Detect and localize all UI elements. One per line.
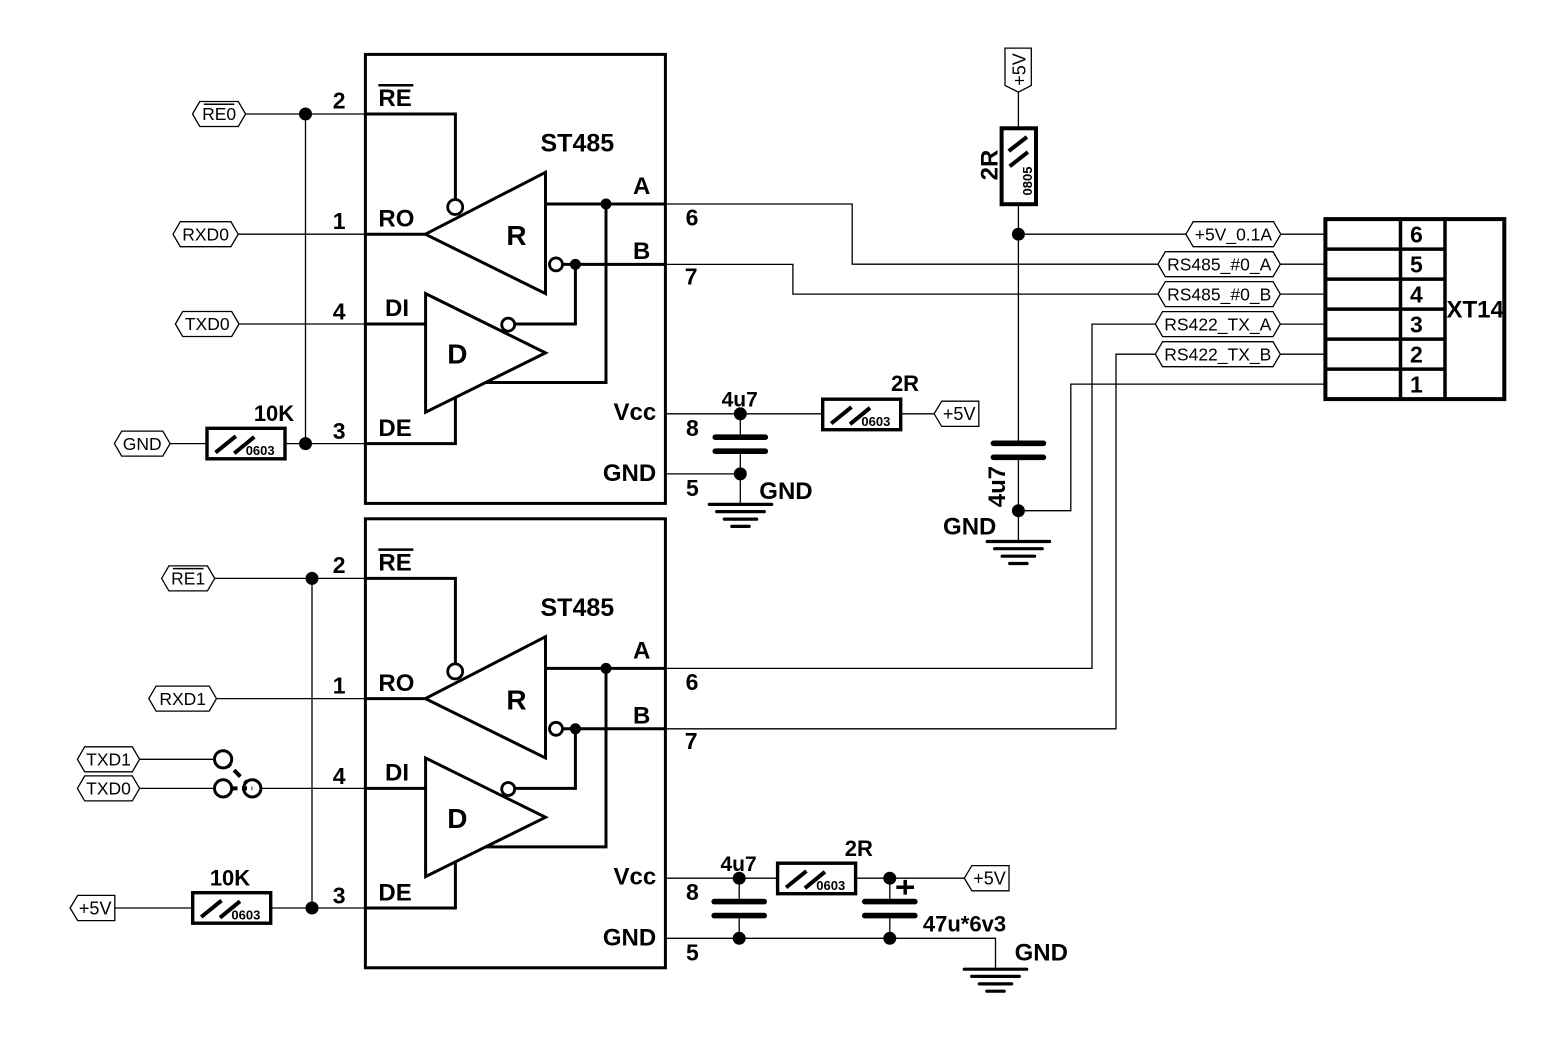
wire RS422_TX_A to XT14 pin 3 bbox=[1280, 323, 1325, 325]
U1 wire DE to driver enable bbox=[365, 397, 455, 443]
jumper dashed link TXD1-DI bbox=[228, 764, 247, 783]
svg-text:10K: 10K bbox=[210, 866, 250, 891]
junction 47u/GND (bottom) bbox=[883, 932, 896, 945]
U2 pin label RO bbox=[378, 670, 414, 697]
op-amp U2 ST485 transceiver body bbox=[365, 519, 665, 968]
svg-text:RE: RE bbox=[378, 85, 411, 112]
wire jumper to U2 pin 4 bbox=[261, 787, 366, 789]
power flag +5V (bottom pullup) bbox=[70, 895, 115, 920]
U2 pin label A bbox=[633, 637, 650, 664]
svg-text:DE: DE bbox=[378, 879, 411, 906]
ground (mid) bbox=[943, 514, 1050, 564]
power flag +5V (bottom Vcc) bbox=[964, 866, 1009, 891]
U1 pin 8 bbox=[686, 415, 699, 441]
capacitor 4u7 (bottom) bbox=[714, 853, 764, 938]
U2 receiver input B bubble bbox=[550, 722, 563, 735]
U2 wire receiver input B bbox=[563, 727, 666, 730]
svg-text:4: 4 bbox=[1410, 281, 1423, 307]
svg-text:+5V: +5V bbox=[973, 869, 1006, 889]
U1 node B junction bbox=[570, 259, 581, 270]
U2 pin 3 bbox=[333, 883, 346, 909]
svg-text:5: 5 bbox=[686, 475, 699, 501]
svg-text:RS485_#0_A: RS485_#0_A bbox=[1167, 254, 1271, 275]
wire 2R to +5V (top) bbox=[901, 413, 934, 415]
svg-text:5: 5 bbox=[686, 939, 699, 965]
svg-text:GND: GND bbox=[603, 924, 656, 951]
U1 pin label Vcc bbox=[613, 399, 656, 426]
wire RE1 to U2 pin 2 bbox=[215, 577, 366, 579]
U2 pin 2 bbox=[333, 552, 346, 578]
wire RS485_#0_A to XT14 pin 5 bbox=[1280, 263, 1325, 265]
svg-text:RS422_TX_A: RS422_TX_A bbox=[1164, 314, 1271, 335]
wire TXD0 to U1 pin 4 bbox=[239, 323, 365, 325]
svg-text:D: D bbox=[447, 803, 467, 834]
U1 pin 3 bbox=[333, 418, 346, 444]
U1 pin 2 bbox=[333, 88, 346, 114]
svg-text:RS422_TX_B: RS422_TX_B bbox=[1164, 344, 1271, 365]
U2 wire A to driver output bbox=[486, 668, 606, 847]
svg-text:1: 1 bbox=[1410, 371, 1423, 397]
svg-text:ST485: ST485 bbox=[541, 594, 615, 622]
wire 4u7 to ground (top) bbox=[739, 474, 741, 505]
svg-text:6: 6 bbox=[1410, 221, 1423, 247]
U2 pin 4 bbox=[333, 763, 346, 789]
net flag RS485_#0_B bbox=[1158, 282, 1280, 307]
U2 pin label DE bbox=[378, 879, 411, 906]
svg-text:GND: GND bbox=[759, 478, 812, 505]
capacitor 47u*6v3 (bottom electrolytic) bbox=[865, 878, 1006, 938]
svg-text:RE1: RE1 bbox=[171, 569, 205, 589]
U2 wire RO to receiver output bbox=[365, 697, 425, 700]
wire RS422_TX_B to U2 B pin7 bbox=[665, 354, 1155, 729]
wire junction to +5V flag (bottom) bbox=[890, 877, 965, 879]
wire RS422_TX_A to U2 A pin6 bbox=[665, 324, 1155, 668]
net flag TXD1 bbox=[77, 747, 139, 772]
net flag TXD0 (bottom) bbox=[77, 776, 139, 801]
svg-text:2: 2 bbox=[333, 88, 346, 114]
junction Vcc/4u7 (bottom) bbox=[733, 872, 746, 885]
resistor 10K 0603 (top pulldown) bbox=[207, 401, 294, 459]
U1 wire A to driver output bbox=[486, 204, 606, 383]
svg-text:0603: 0603 bbox=[816, 878, 845, 893]
svg-text:DI: DI bbox=[385, 295, 409, 322]
U2 wire B to driver inverted output bbox=[515, 729, 576, 789]
svg-text:B: B bbox=[633, 702, 650, 729]
svg-text:6: 6 bbox=[686, 205, 699, 231]
svg-text:RE0: RE0 bbox=[202, 104, 236, 124]
U1 driver triangle D bbox=[426, 294, 546, 413]
svg-text:3: 3 bbox=[333, 883, 346, 909]
svg-text:D: D bbox=[447, 339, 467, 370]
svg-text:+5V_0.1A: +5V_0.1A bbox=[1195, 224, 1273, 245]
U1 pin label RE (active low) bbox=[378, 85, 413, 112]
wire XT14 pin1 to ground net bbox=[1018, 384, 1325, 511]
wire RE0 to U1 pin 2 bbox=[246, 113, 366, 115]
U1 wire receiver input A bbox=[546, 203, 666, 206]
svg-text:3: 3 bbox=[333, 418, 346, 444]
U2 pin 7 bbox=[685, 728, 698, 754]
wire +5V to resistor 2R 0805 bbox=[1017, 92, 1019, 128]
svg-text:GND: GND bbox=[123, 434, 162, 454]
wire 2R to +5V junction (bottom) bbox=[856, 877, 890, 879]
U2 pin 6 bbox=[686, 669, 699, 695]
junction DE/10K (bottom) bbox=[306, 902, 319, 915]
svg-text:5: 5 bbox=[1410, 251, 1423, 277]
svg-text:4: 4 bbox=[333, 299, 346, 325]
U1 pin label DE bbox=[378, 415, 411, 442]
svg-text:0603: 0603 bbox=[861, 414, 890, 429]
jumper dashed link TXD0-DI bbox=[233, 786, 253, 790]
net flag RXD0 bbox=[173, 222, 238, 247]
svg-text:RO: RO bbox=[378, 670, 414, 697]
U1 pin label RO bbox=[378, 206, 414, 233]
svg-text:TXD1: TXD1 bbox=[86, 750, 131, 770]
U2 node A junction bbox=[601, 663, 612, 674]
resistor 2R 0805 bbox=[977, 128, 1037, 204]
net flag RE0 bbox=[193, 102, 246, 127]
wire RXD1 to U2 pin 1 bbox=[217, 698, 366, 700]
U2 wire DI to driver input bbox=[365, 787, 425, 790]
U2 wire RE to receiver enable bbox=[365, 578, 455, 663]
U2 wire DE to driver enable bbox=[365, 862, 455, 908]
svg-text:RXD0: RXD0 bbox=[182, 224, 229, 244]
U2 pin label DI bbox=[385, 760, 409, 787]
wire +5V to resistor 10K (bottom) bbox=[115, 907, 193, 909]
svg-text:GND: GND bbox=[943, 514, 996, 541]
resistor 10K 0603 (bottom pullup) bbox=[193, 866, 271, 924]
svg-text:2: 2 bbox=[1410, 341, 1423, 367]
U2 pin 5 bbox=[686, 939, 699, 965]
net flag +5V_0.1A bbox=[1186, 222, 1281, 247]
U1 wire B to driver inverted output bbox=[515, 264, 576, 324]
U2 pin 1 bbox=[333, 673, 346, 699]
svg-text:2: 2 bbox=[333, 552, 346, 578]
jumper pad circle DI side bbox=[244, 780, 261, 797]
net flag TXD0 (top) bbox=[175, 312, 239, 337]
wire GND flag to resistor 10K bbox=[170, 443, 207, 445]
svg-text:8: 8 bbox=[686, 879, 699, 905]
svg-text:R: R bbox=[506, 220, 526, 251]
wire RXD0 to U1 pin 1 bbox=[238, 233, 365, 235]
svg-text:0805: 0805 bbox=[1020, 167, 1035, 196]
svg-text:DI: DI bbox=[385, 760, 409, 787]
U1 wire RO to receiver output bbox=[365, 233, 425, 236]
svg-text:RO: RO bbox=[378, 206, 414, 233]
U2 pin label RE (active low) bbox=[378, 549, 413, 576]
wire 10K to U2 pin 3 bbox=[271, 907, 366, 909]
svg-text:4u7: 4u7 bbox=[984, 466, 1011, 507]
U2 receiver enable bubble bbox=[448, 664, 463, 679]
U2 pin label Vcc bbox=[613, 864, 656, 891]
power flag +5V (top Vcc) bbox=[934, 401, 979, 426]
svg-text:10K: 10K bbox=[254, 401, 294, 426]
svg-text:A: A bbox=[633, 173, 650, 200]
svg-text:TXD0: TXD0 bbox=[86, 779, 131, 799]
svg-text:B: B bbox=[633, 238, 650, 265]
junction GND/4u7 (top) bbox=[734, 467, 747, 480]
net flag RXD1 bbox=[149, 686, 217, 711]
U2 pin label B bbox=[633, 702, 650, 729]
junction Vcc/4u7 (top) bbox=[734, 407, 747, 420]
wire TXD0 to jumper bbox=[140, 787, 215, 789]
jumper pad circle TXD0 bbox=[215, 780, 232, 797]
svg-text:47u*6v3: 47u*6v3 bbox=[923, 912, 1006, 937]
svg-text:RS485_#0_B: RS485_#0_B bbox=[1167, 284, 1271, 305]
svg-text:ST485: ST485 bbox=[541, 129, 615, 157]
U2 node B junction bbox=[570, 723, 581, 734]
svg-text:GND: GND bbox=[603, 460, 656, 487]
net flag GND (left) bbox=[114, 431, 170, 456]
junction RE1/DE tie (bottom) bbox=[306, 572, 319, 585]
U2 pin label GND bbox=[603, 924, 656, 951]
svg-text:XT14: XT14 bbox=[1447, 297, 1505, 324]
wire RS422_TX_B to XT14 pin 2 bbox=[1280, 353, 1325, 355]
capacitor 47u*6v3 polarity plus bbox=[896, 880, 914, 895]
resistor 2R 0603 (top) bbox=[823, 371, 919, 430]
net flag RS422_TX_A bbox=[1155, 312, 1280, 337]
svg-text:4: 4 bbox=[333, 763, 346, 789]
capacitor 4u7 (mid vertical) bbox=[984, 234, 1043, 511]
svg-text:3: 3 bbox=[1410, 311, 1423, 337]
svg-text:0603: 0603 bbox=[231, 908, 260, 923]
U1 driver inverted output bubble bbox=[502, 318, 515, 331]
U1 pin 5 bbox=[686, 475, 699, 501]
wire RS485_#0_B to XT14 pin 4 bbox=[1280, 293, 1325, 295]
wire +5V_0.1A bbox=[1018, 233, 1186, 235]
U1 receiver triangle R bbox=[425, 172, 545, 293]
U1 pin 7 bbox=[685, 264, 698, 290]
junction 2R/47u (bottom) bbox=[883, 872, 896, 885]
wire U1 B pin7 to RS485_#0_B bbox=[665, 264, 1158, 294]
capacitor 4u7 (top) bbox=[715, 389, 765, 474]
connector XT14 bbox=[1325, 219, 1504, 399]
svg-text:8: 8 bbox=[686, 415, 699, 441]
ground (bottom) bbox=[964, 940, 1068, 992]
power flag +5V (0805 top) bbox=[1005, 48, 1031, 92]
U1 pin label GND bbox=[603, 460, 656, 487]
svg-text:4u7: 4u7 bbox=[721, 853, 757, 876]
U1 pin 1 bbox=[333, 208, 346, 234]
svg-text:DE: DE bbox=[378, 415, 411, 442]
U1 receiver input B bubble bbox=[550, 258, 563, 271]
svg-text:A: A bbox=[633, 637, 650, 664]
svg-text:1: 1 bbox=[333, 673, 346, 699]
svg-text:4u7: 4u7 bbox=[722, 389, 758, 412]
wire RE0-DE vertical tie (top) bbox=[305, 114, 307, 444]
op-amp U1 ST485 transceiver body bbox=[365, 54, 665, 503]
U2 wire receiver input A bbox=[546, 667, 666, 670]
wire junction to ground (mid) bbox=[1017, 511, 1019, 542]
junction 2R/+5V_0.1A bbox=[1012, 228, 1025, 241]
svg-text:+5V: +5V bbox=[79, 898, 112, 918]
svg-text:2R: 2R bbox=[977, 150, 1004, 181]
svg-text:RXD1: RXD1 bbox=[159, 689, 206, 709]
U1 pin 4 bbox=[333, 299, 346, 325]
wire U1 Vcc pin8 bbox=[665, 413, 822, 415]
wire U1 A pin6 to RS485_#0_A bbox=[665, 204, 1158, 264]
U2 driver triangle D bbox=[426, 758, 546, 877]
wire 10K to U1 pin 3 bbox=[285, 443, 365, 445]
svg-text:7: 7 bbox=[685, 728, 698, 754]
wire U2 GND pin5 to ground bbox=[665, 938, 995, 969]
wire TXD1 to jumper bbox=[140, 758, 215, 760]
svg-text:R: R bbox=[506, 685, 526, 716]
svg-text:RE: RE bbox=[378, 549, 411, 576]
svg-text:1: 1 bbox=[333, 208, 346, 234]
wire +5V_0.1A to XT14 pin 6 bbox=[1281, 233, 1326, 235]
U1 pin label B bbox=[633, 238, 650, 265]
svg-text:TXD0: TXD0 bbox=[185, 314, 230, 334]
junction RE0/DE tie (top) bbox=[299, 108, 312, 121]
junction 4u7/GND/XT14 pin1 bbox=[1012, 504, 1025, 517]
resistor 2R 0603 (bottom) bbox=[778, 836, 873, 894]
U2 receiver triangle R bbox=[425, 637, 545, 758]
wire 2R 0805 to junction bbox=[1017, 204, 1019, 234]
U2 pin 8 bbox=[686, 879, 699, 905]
svg-text:6: 6 bbox=[686, 669, 699, 695]
wire U1 GND pin5 bbox=[665, 473, 740, 475]
svg-text:Vcc: Vcc bbox=[613, 864, 656, 891]
net flag RS485_#0_A bbox=[1158, 252, 1280, 277]
net flag RS422_TX_B bbox=[1155, 342, 1280, 367]
svg-text:GND: GND bbox=[1015, 940, 1068, 967]
U1 pin label A bbox=[633, 173, 650, 200]
svg-text:2R: 2R bbox=[845, 836, 873, 861]
U1 wire DI to driver input bbox=[365, 323, 425, 326]
svg-text:+5V: +5V bbox=[1009, 53, 1029, 86]
svg-text:2R: 2R bbox=[891, 371, 919, 396]
net flag RE1 bbox=[162, 566, 215, 591]
jumper pad circle TXD1 bbox=[215, 751, 232, 768]
svg-text:0603: 0603 bbox=[246, 443, 275, 458]
U1 receiver enable bubble bbox=[448, 200, 463, 215]
U1 wire receiver input B bbox=[563, 263, 666, 266]
U2 driver inverted output bubble bbox=[502, 783, 515, 796]
U1 wire RE to receiver enable bbox=[365, 114, 455, 199]
svg-text:+5V: +5V bbox=[943, 404, 976, 424]
svg-text:Vcc: Vcc bbox=[613, 399, 656, 426]
U1 node A junction bbox=[601, 199, 612, 210]
junction GND/4u7 (bottom) bbox=[733, 932, 746, 945]
wire U2 Vcc pin8 bbox=[665, 877, 777, 879]
ground (top chip) bbox=[709, 478, 812, 526]
wire RE1-DE vertical tie (bottom) bbox=[311, 578, 313, 908]
U1 pin 6 bbox=[686, 205, 699, 231]
junction DE/10K (top) bbox=[299, 437, 312, 450]
svg-text:7: 7 bbox=[685, 264, 698, 290]
U1 pin label DI bbox=[385, 295, 409, 322]
